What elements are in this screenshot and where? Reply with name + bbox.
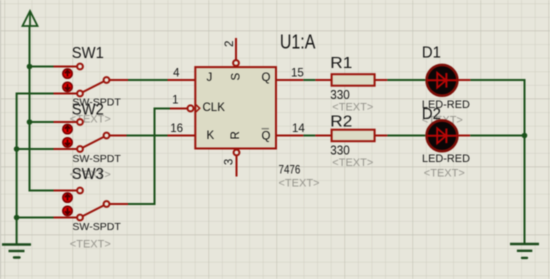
pin S stub — [235, 38, 237, 60]
wire SW2 top feed — [30, 121, 54, 123]
power symbol VCC arrow — [23, 11, 38, 26]
left window border — [0, 0, 1, 279]
svg-text:7476: 7476 — [279, 163, 301, 177]
switch SW2 — [54, 119, 127, 152]
svg-text:3: 3 — [224, 159, 236, 165]
pin K stub — [168, 135, 197, 137]
switch SW1 — [54, 64, 129, 97]
svg-text:<TEXT>: <TEXT> — [70, 239, 111, 251]
pin Q stub — [276, 79, 303, 81]
pin J stub — [168, 79, 197, 81]
svg-text:<TEXT>: <TEXT> — [332, 102, 373, 114]
svg-text:14: 14 — [292, 123, 305, 135]
pin S bubble — [233, 60, 239, 66]
svg-text:15: 15 — [291, 68, 304, 80]
SW1 toggle button down — [63, 82, 72, 91]
resistor R2 — [315, 130, 387, 142]
svg-text:Q: Q — [262, 131, 271, 143]
SW2 toggle button up — [63, 124, 72, 133]
svg-text:K: K — [207, 130, 215, 142]
svg-text:Q: Q — [262, 72, 271, 84]
wire SW1 pole to J — [128, 79, 169, 81]
svg-text:2: 2 — [224, 41, 236, 47]
SW3 toggle button down — [63, 206, 72, 215]
svg-text:S: S — [230, 72, 242, 80]
svg-text:330: 330 — [330, 88, 350, 102]
node junction right rail — [522, 133, 528, 139]
wire Q to R1 — [303, 79, 315, 81]
IC U1 7476 body — [195, 67, 276, 148]
node junction power-SW2 — [27, 119, 33, 125]
svg-text:LED-RED: LED-RED — [422, 153, 470, 165]
pin R stub — [236, 155, 238, 176]
svg-text:J: J — [207, 72, 213, 84]
svg-text:16: 16 — [170, 123, 183, 135]
wire Qbar to R2 — [303, 135, 315, 137]
ground left — [2, 245, 31, 258]
svg-text:4: 4 — [173, 67, 180, 79]
svg-text:CLK: CLK — [203, 102, 226, 114]
wire R1 to D1 — [387, 79, 425, 81]
node junction power-SW1 — [27, 64, 33, 70]
svg-text:SW1: SW1 — [72, 45, 104, 62]
SW2 toggle button down — [63, 138, 72, 147]
wire D1 to right rail — [470, 80, 524, 243]
wire ground rail — [17, 94, 54, 245]
node junction rail-SW3 — [14, 215, 20, 221]
svg-text:R1: R1 — [330, 55, 352, 72]
LED D1 — [427, 65, 458, 96]
wire SW2 bottom to rail — [17, 148, 54, 150]
switch SW3 — [54, 188, 129, 221]
wire SW2 pole to K — [127, 135, 168, 137]
svg-text:<TEXT>: <TEXT> — [424, 167, 465, 179]
wire D2 to right rail — [470, 135, 524, 137]
svg-text:R: R — [230, 131, 242, 139]
svg-text:SW2: SW2 — [72, 102, 104, 119]
node junction rail-SW2 — [14, 146, 20, 152]
svg-text:SW3: SW3 — [72, 166, 104, 183]
pin CLK bubble — [188, 105, 194, 111]
resistor R1 — [315, 74, 387, 86]
wire SW3 bottom to rail — [17, 217, 54, 219]
svg-text:U1:A: U1:A — [280, 32, 316, 54]
svg-text:SW-SPDT: SW-SPDT — [72, 153, 121, 165]
svg-text:D1: D1 — [422, 45, 441, 62]
svg-text:SW-SPDT: SW-SPDT — [72, 221, 121, 233]
clock triangle — [196, 105, 200, 112]
svg-text:<TEXT>: <TEXT> — [332, 157, 373, 169]
svg-text:R2: R2 — [330, 113, 352, 130]
svg-text:<TEXT>: <TEXT> — [279, 178, 320, 190]
LED D2 — [427, 120, 458, 151]
pin D1 right stub — [458, 79, 471, 81]
pin CLK stub — [170, 108, 188, 110]
pin Qbar stub — [276, 135, 303, 137]
svg-text:330: 330 — [330, 144, 350, 158]
pin D2 right stub — [458, 135, 471, 137]
SW1 toggle button up — [63, 69, 72, 78]
ground right — [510, 244, 539, 258]
SW3 toggle button up — [63, 193, 72, 202]
wire SW1 top feed — [30, 66, 54, 68]
svg-text:1: 1 — [172, 95, 178, 107]
wire power rail — [30, 26, 54, 191]
pin R bubble — [234, 150, 240, 156]
wire SW3 pole to CLK net — [128, 109, 170, 205]
wire R2 to D2 — [387, 135, 425, 137]
